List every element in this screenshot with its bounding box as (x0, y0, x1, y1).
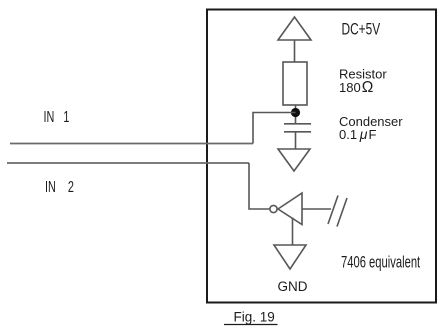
label IN 2 (45, 178, 74, 195)
value label 180 ohm (339, 79, 373, 96)
svg-text:0.1 μ F: 0.1 μ F (339, 126, 376, 142)
power symbol DC+5V (up triangle) (278, 17, 311, 40)
wire IN 2 (7, 162, 249, 164)
resistor R (180 ohm) (283, 62, 307, 105)
wire inverter output (302, 208, 331, 210)
break symbol (double slash) (328, 196, 347, 227)
wire node to IN1 (L shape) (253, 113, 296, 144)
label IN 1 (44, 108, 70, 125)
label Resistor (339, 67, 387, 82)
caption Fig. 19 (underlined) (224, 310, 278, 325)
svg-text:IN 1: IN 1 (44, 108, 70, 125)
enclosure box (207, 10, 436, 303)
svg-text:GND: GND (278, 279, 308, 294)
node junction (filled dot) (291, 108, 300, 117)
svg-text:Fig. 19: Fig. 19 (234, 310, 275, 325)
wire capacitor to ground (295, 132, 297, 149)
wire IN 1 (10, 143, 253, 145)
wire IN2 to inverter input (249, 163, 270, 209)
value label 0.1 uF (339, 126, 376, 142)
capacitor C plates (284, 124, 311, 132)
label DC+5V (342, 20, 381, 39)
svg-text:7406 equivalent: 7406 equivalent (341, 253, 420, 272)
label GND (278, 279, 308, 294)
label Condenser (339, 114, 403, 129)
ground symbol (below capacitor) (278, 149, 310, 171)
wire resistor to node (295, 105, 297, 124)
wire power to resistor (294, 40, 296, 62)
label 7406 equivalent (341, 253, 420, 272)
svg-text:IN 2: IN 2 (45, 178, 74, 195)
svg-text:DC+5V: DC+5V (342, 20, 381, 39)
inverter bubble (270, 205, 277, 212)
wire inverter to GND (292, 218, 294, 246)
ground symbol GND (274, 245, 306, 269)
svg-text:180 Ω: 180 Ω (339, 79, 373, 96)
inverter U1 (7406, left-pointing triangle) (278, 193, 302, 225)
